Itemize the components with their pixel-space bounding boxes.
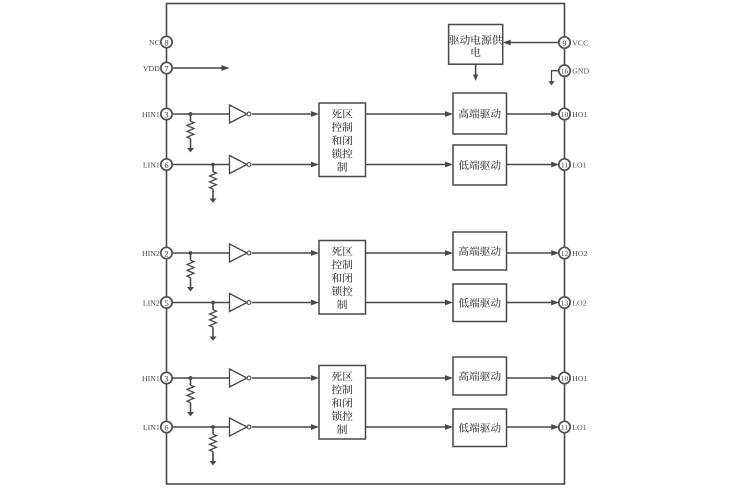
svg-text:11: 11	[561, 161, 568, 170]
svg-text:HO1: HO1	[572, 374, 587, 383]
svg-text:6: 6	[164, 160, 168, 170]
svg-text:9: 9	[562, 38, 566, 48]
svg-text:VDD: VDD	[143, 64, 160, 73]
svg-text:LO2: LO2	[572, 299, 586, 308]
svg-text:HIN2: HIN2	[142, 249, 160, 258]
svg-text:GND: GND	[572, 67, 589, 76]
svg-text:3: 3	[164, 374, 168, 384]
svg-text:VCC: VCC	[572, 39, 588, 48]
svg-text:LO1: LO1	[572, 423, 586, 432]
svg-text:HIN1: HIN1	[142, 374, 160, 383]
svg-text:7: 7	[164, 64, 168, 74]
svg-text:LIN1: LIN1	[143, 161, 160, 170]
svg-text:6: 6	[164, 423, 168, 433]
svg-text:LIN2: LIN2	[143, 299, 160, 308]
svg-text:11: 11	[561, 423, 568, 432]
svg-text:10: 10	[561, 374, 569, 383]
svg-text:2: 2	[164, 249, 168, 259]
svg-text:LIN1: LIN1	[143, 423, 160, 432]
svg-text:3: 3	[164, 110, 168, 120]
svg-text:HO1: HO1	[572, 110, 587, 119]
svg-text:12: 12	[561, 249, 569, 258]
svg-text:5: 5	[164, 298, 168, 308]
svg-text:HO2: HO2	[572, 249, 587, 258]
svg-text:10: 10	[561, 110, 569, 119]
svg-text:8: 8	[164, 38, 168, 48]
svg-text:HIN1: HIN1	[142, 110, 160, 119]
svg-text:NC: NC	[149, 38, 160, 47]
svg-text:16: 16	[561, 67, 569, 76]
svg-text:13: 13	[561, 299, 569, 308]
svg-text:LO1: LO1	[572, 161, 586, 170]
